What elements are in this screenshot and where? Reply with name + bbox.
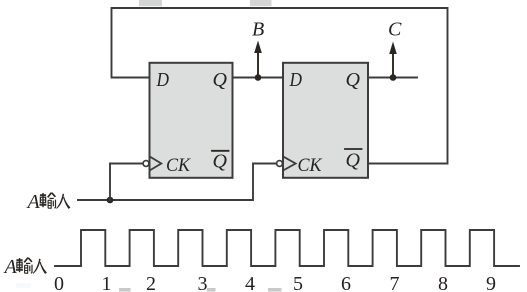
label A-input (schematic) bbox=[26, 191, 71, 213]
stray gray mark between 1 and 2 bbox=[119, 288, 131, 292]
svg-text:A: A bbox=[3, 256, 18, 278]
U2 clock inversion bubble bbox=[277, 161, 283, 167]
label A-input (waveform) bbox=[3, 256, 48, 278]
wire: A input horizontal to U2 CK bbox=[78, 164, 276, 201]
svg-text:Q: Q bbox=[213, 69, 228, 91]
U2 clock edge wedge bbox=[284, 157, 295, 170]
D flip-flop U1 (body) bbox=[150, 63, 233, 178]
U1 clock edge wedge bbox=[151, 157, 162, 170]
svg-text:Q: Q bbox=[346, 150, 361, 172]
stray gray mark after 3 bbox=[207, 288, 216, 292]
U1 clock inversion bubble bbox=[143, 161, 149, 167]
svg-text:A: A bbox=[26, 191, 41, 213]
stray gray tab at top edge (left) bbox=[139, 0, 162, 6]
wire: junction up to U1 CK bbox=[110, 164, 142, 201]
svg-text:D: D bbox=[289, 69, 303, 91]
svg-text:9: 9 bbox=[486, 273, 496, 292]
stray gray mark between 4 and 5 bbox=[268, 288, 282, 292]
svg-text:CK: CK bbox=[166, 155, 191, 176]
svg-text:CK: CK bbox=[298, 155, 323, 176]
svg-text:5: 5 bbox=[293, 273, 303, 292]
U1 pin label Q-bar bbox=[212, 151, 229, 173]
svg-text:D: D bbox=[156, 69, 170, 91]
junction node on A wire bbox=[107, 197, 114, 204]
svg-text:0: 0 bbox=[54, 273, 64, 292]
arrow tap for node B bbox=[254, 41, 262, 78]
svg-text:1: 1 bbox=[102, 273, 112, 292]
svg-text:3: 3 bbox=[198, 273, 208, 292]
junction node C dot bbox=[390, 74, 397, 81]
svg-text:C: C bbox=[388, 19, 402, 41]
svg-text:7: 7 bbox=[390, 273, 400, 292]
faint gray smudge bottom-left bbox=[16, 283, 31, 288]
svg-text:4: 4 bbox=[245, 273, 255, 292]
svg-text:2: 2 bbox=[146, 273, 156, 292]
clock waveform trace bbox=[55, 230, 519, 266]
stray gray tab at top edge (right) bbox=[250, 0, 272, 6]
svg-text:Q: Q bbox=[213, 151, 228, 173]
svg-text:Q: Q bbox=[346, 69, 361, 91]
wire: U1 Q output to U2 D input bbox=[233, 77, 284, 79]
svg-text:6: 6 bbox=[341, 273, 351, 292]
U2 pin label Q-bar bbox=[345, 149, 362, 172]
junction node B dot bbox=[255, 74, 262, 81]
wire: U2 Q output stub bbox=[368, 77, 417, 79]
svg-text:B: B bbox=[252, 19, 264, 41]
D flip-flop U2 (body) bbox=[283, 63, 368, 178]
wire: feedback loop from Q-bar of U2 to D of U1 (top) bbox=[112, 8, 448, 164]
svg-text:8: 8 bbox=[438, 273, 448, 292]
arrow tap for node C bbox=[389, 42, 397, 78]
